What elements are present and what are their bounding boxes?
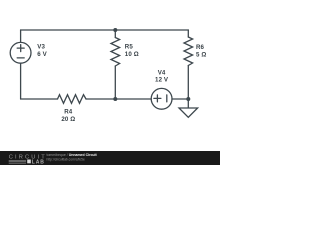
label V4 value (155, 69, 169, 83)
svg-text:10 Ω: 10 Ω (125, 51, 139, 58)
wire left branch lower (20, 63, 22, 99)
node junction right (V4 / R6 / ground) (186, 97, 190, 101)
node junction top (middle branch / top rail) (113, 28, 117, 32)
resistor R5 (111, 38, 120, 67)
svg-text:LAB: LAB (32, 159, 45, 165)
footer bar (0, 151, 220, 165)
svg-text:R6: R6 (196, 44, 205, 51)
svg-text:V3: V3 (37, 44, 45, 51)
svg-text:20 Ω: 20 Ω (61, 116, 75, 123)
svg-text:V4: V4 (158, 69, 166, 76)
svg-text:R5: R5 (125, 44, 134, 51)
label R4 value (61, 109, 75, 124)
node junction bottom (middle branch / bottom rail) (113, 97, 117, 101)
resistor R4 (58, 95, 87, 104)
wire top rail (21, 29, 189, 31)
wire bottom right segment (172, 98, 188, 100)
footer CircuitLab logo (9, 155, 47, 166)
svg-text:12 V: 12 V (155, 76, 169, 83)
label V3 value (37, 44, 47, 58)
svg-text:6 V: 6 V (37, 51, 47, 58)
wire right branch upper (187, 30, 189, 37)
label R6 value (196, 44, 206, 58)
voltage source V3 (10, 42, 31, 63)
wire bottom left segment (21, 98, 58, 100)
resistor R6 (184, 37, 193, 66)
svg-text:R4: R4 (64, 109, 73, 116)
svg-text:http://circuitlab.com/c/fe5e: http://circuitlab.com/c/fe5e (47, 157, 85, 161)
wire middle branch lower (114, 66, 116, 99)
svg-text:5 Ω: 5 Ω (196, 51, 206, 58)
ground (179, 108, 198, 117)
wire bottom middle segment (86, 98, 151, 100)
wire left branch upper (20, 30, 22, 42)
wire right branch lower (187, 66, 189, 100)
wire middle branch upper (114, 30, 116, 38)
voltage source V4 (151, 88, 172, 109)
wire ground stub (187, 99, 189, 108)
label R5 value (125, 44, 139, 58)
